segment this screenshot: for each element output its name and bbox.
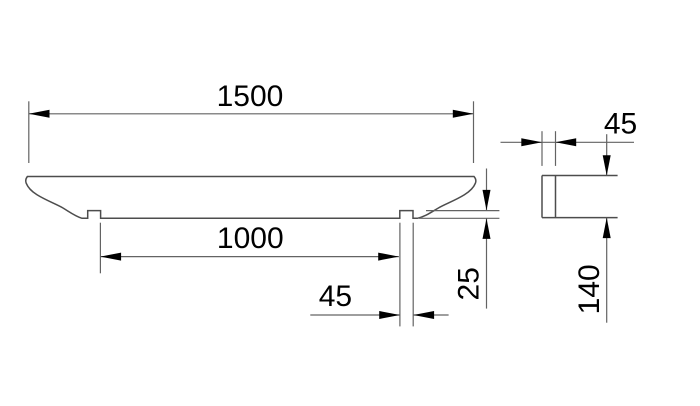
arrowhead 25 lower [483, 218, 491, 239]
side view top edge and 140 extension [542, 175, 618, 177]
dimension line 1000 [100, 256, 399, 258]
extension line 25 upper [426, 210, 499, 212]
shelf front profile [26, 177, 476, 219]
label 25 rotated [452, 267, 485, 300]
label 45 side [604, 108, 637, 141]
arrowhead 45 side left [521, 138, 542, 146]
arrowhead 1500 left [29, 110, 50, 118]
svg-text:1500: 1500 [217, 80, 284, 113]
arrowhead 45 side right [556, 138, 577, 146]
extension line 1500 right [473, 101, 475, 163]
arrowhead 140 upper [603, 155, 611, 175]
label 140 rotated [573, 264, 606, 314]
dimension line 25 lower segment [486, 218, 488, 308]
dimension line 140 upper segment [606, 134, 608, 175]
arrowhead 1500 right [453, 110, 474, 118]
arrowhead 1000 right [378, 253, 399, 261]
extension line notch right side [412, 223, 414, 327]
side view rectangle [542, 176, 556, 218]
extension line 1500 left [28, 101, 30, 163]
svg-text:25: 25 [452, 267, 485, 300]
extension line notch left side [399, 223, 401, 327]
dimension line 45 side [501, 141, 635, 143]
svg-text:140: 140 [573, 264, 606, 314]
arrowhead 1000 left [100, 253, 121, 261]
side view bottom edge and 140 extension [542, 217, 618, 219]
dimension line 140 lower segment [606, 218, 608, 323]
dimension line 45 bottom left tail [310, 314, 400, 316]
dimension line 1500 [29, 113, 474, 115]
label 1500 [217, 80, 284, 113]
dimension line 25 upper segment [486, 169, 488, 211]
arrowhead 25 upper [483, 190, 491, 211]
extension line 45 side left [541, 131, 543, 166]
svg-text:1000: 1000 [217, 222, 284, 255]
label 45 bottom [319, 280, 352, 313]
extension line 45 side right [555, 131, 557, 166]
arrowhead 140 lower [603, 218, 611, 239]
svg-text:45: 45 [604, 108, 637, 141]
label 1000 [217, 222, 284, 255]
svg-text:45: 45 [319, 280, 352, 313]
extension line 1000 left [99, 223, 101, 274]
arrowhead 45 bottom right [413, 311, 434, 319]
extension line 25 lower [419, 217, 499, 219]
arrowhead 45 bottom left [379, 311, 400, 319]
dimension line 45 bottom right tail [413, 314, 448, 316]
